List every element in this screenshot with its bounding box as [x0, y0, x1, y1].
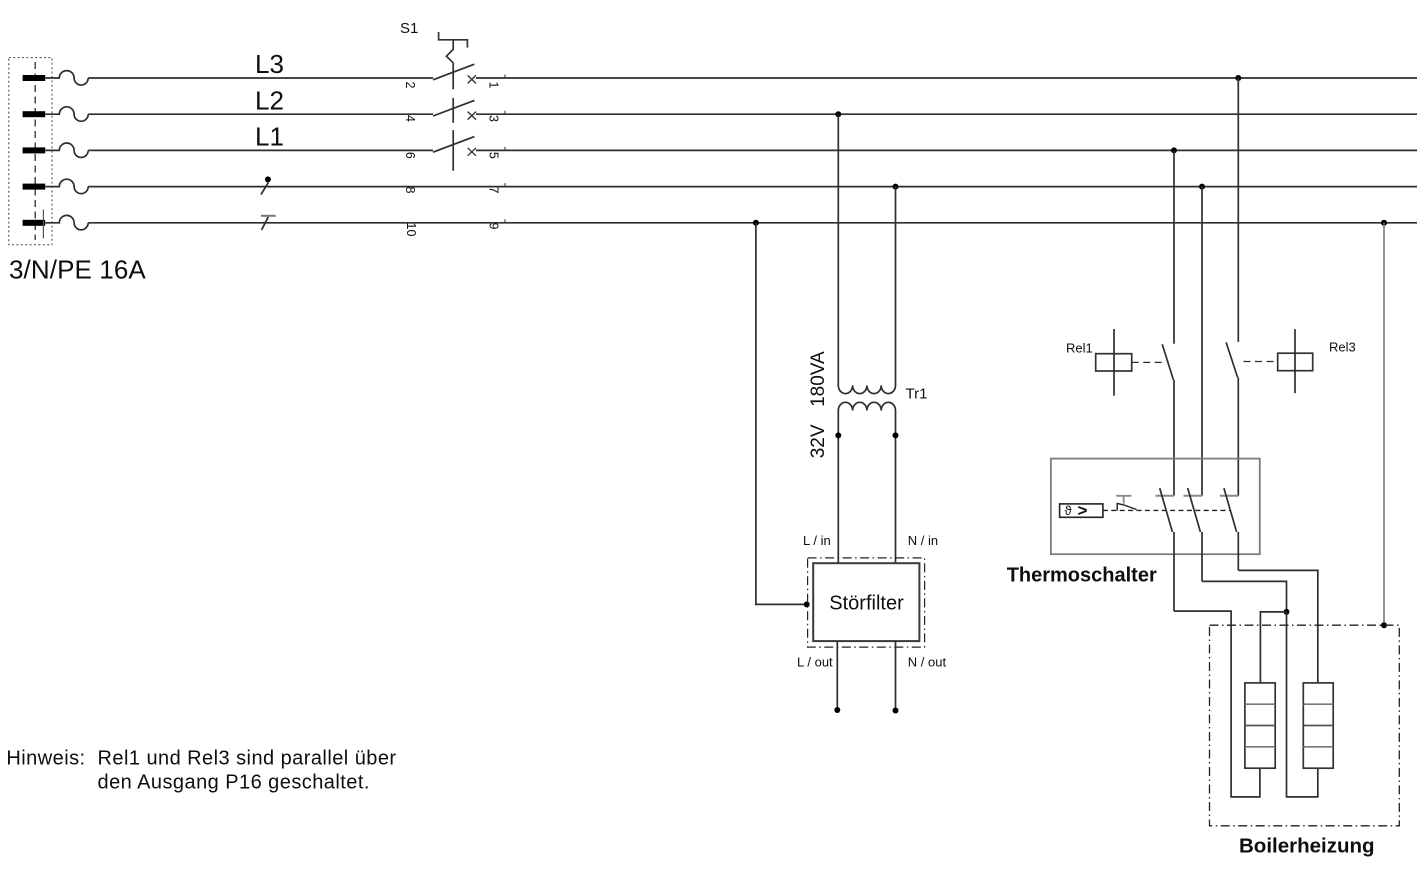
- svg-text:ϑ: ϑ: [1065, 503, 1073, 518]
- terminal tick pin1: [504, 75, 506, 79]
- svg-text:7: 7: [487, 187, 501, 194]
- switch S1 actuator bracket: [439, 32, 468, 48]
- switch S1 pole 2 lever: [433, 100, 474, 116]
- terminal tick pin7: [504, 183, 506, 187]
- thermo contact 3 fixed bar: [1220, 495, 1239, 497]
- svg-text:L3: L3: [255, 49, 284, 79]
- transformer secondary left dot: [835, 432, 841, 438]
- thermo contact 2 lower wire: [1201, 532, 1203, 582]
- cable squiggle L2: [45, 107, 88, 121]
- Rel3 coil axis line: [1294, 329, 1296, 393]
- Thermoschalter box: [1051, 459, 1260, 555]
- svg-text:4: 4: [403, 115, 417, 122]
- wire thermo3 to heater2 top: [1238, 570, 1318, 683]
- thermo contact 3 lower wire: [1237, 532, 1239, 571]
- svg-text:10: 10: [404, 223, 418, 237]
- transformer Tr1 secondary right lead: [895, 411, 897, 564]
- svg-text:Boilerheizung: Boilerheizung: [1239, 835, 1375, 858]
- svg-text:5: 5: [487, 152, 501, 159]
- junction dot L1 to Rel1 contact: [1171, 147, 1177, 153]
- terminal tick pin5: [504, 147, 506, 151]
- junction dot N to transformer: [893, 184, 899, 190]
- svg-text:8: 8: [403, 187, 417, 194]
- svg-text:L2: L2: [255, 85, 284, 115]
- svg-text:Hinweis:: Hinweis:: [6, 748, 85, 770]
- Rel1 dashed link: [1132, 361, 1166, 363]
- junction dot heater feed: [1284, 609, 1290, 615]
- transformer Tr1 secondary left lead: [837, 411, 839, 564]
- svg-text:1: 1: [487, 82, 501, 89]
- Störfilter earth wire from PE: [756, 223, 807, 605]
- svg-text:L / in: L / in: [803, 533, 831, 548]
- switch S1 pole 1 X mark: [468, 75, 476, 83]
- Störfilter N/out dot: [893, 708, 899, 714]
- thermo contact 1 fixed bar: [1156, 495, 1175, 497]
- svg-text:N / out: N / out: [908, 654, 947, 669]
- wire thermo2 to junction: [1202, 581, 1287, 612]
- terminal bar L2: [23, 111, 46, 117]
- transformer Tr1 primary winding: [838, 385, 895, 393]
- junction dot L2 to transformer: [835, 111, 841, 117]
- svg-text:180VA: 180VA: [808, 351, 829, 407]
- Störfilter N/out lead: [895, 641, 897, 710]
- wire junction to heater2 bottom: [1287, 612, 1318, 797]
- PE enclosure dot: [1381, 622, 1387, 628]
- trip latch T-bar: [1116, 496, 1131, 504]
- svg-text:Thermoschalter: Thermoschalter: [1007, 565, 1157, 587]
- N line contact symbol: [261, 176, 271, 194]
- transformer secondary right dot: [893, 432, 899, 438]
- Rel3 contact drop wire lower: [1237, 378, 1239, 496]
- junction dot L3 to Rel3 contact: [1235, 75, 1241, 81]
- wire L2 left segment: [88, 113, 433, 115]
- terminal block 3/N/PE 16A : dotted enclosure: [9, 58, 52, 245]
- terminal bar L1: [23, 147, 46, 153]
- Störfilter outer dash-dot box: [808, 558, 925, 647]
- PE line contact symbol: [261, 216, 276, 230]
- svg-text:>: >: [1078, 501, 1088, 520]
- svg-text:2: 2: [403, 82, 417, 89]
- svg-text:S1: S1: [400, 20, 418, 37]
- svg-text:9: 9: [487, 223, 501, 230]
- thermo contact 1 lever: [1160, 488, 1173, 532]
- wire L1 left segment: [88, 149, 433, 151]
- Rel3 dashed link: [1244, 361, 1278, 363]
- Rel1 contact drop wire upper: [1173, 150, 1175, 343]
- Störfilter L/out lead: [836, 641, 838, 709]
- terminal bar N: [23, 184, 46, 190]
- terminal tick pin9: [504, 219, 506, 223]
- Rel3 contact lever: [1226, 342, 1238, 377]
- terminal tick pin3: [504, 111, 506, 115]
- svg-text:den Ausgang P16 geschaltet.: den Ausgang P16 geschaltet.: [98, 771, 370, 793]
- transformer Tr1 secondary winding: [838, 402, 895, 410]
- wire junction to heater1 top: [1260, 612, 1286, 683]
- svg-text:32V: 32V: [808, 424, 829, 458]
- switch S1 pole 1 lever: [433, 64, 474, 80]
- svg-text:Rel1 und Rel3 sind parallel üb: Rel1 und Rel3 sind parallel über: [98, 748, 397, 770]
- switch S1 mechanical link: [452, 63, 454, 171]
- wire L3 right segment: [476, 77, 1417, 79]
- Rel3 contact drop wire upper: [1237, 78, 1239, 342]
- svg-text:L / out: L / out: [797, 654, 833, 669]
- svg-text:L1: L1: [255, 122, 284, 152]
- svg-text:Rel3: Rel3: [1329, 340, 1356, 355]
- svg-text:6: 6: [403, 152, 417, 159]
- thermo contact 2 lever: [1188, 488, 1201, 532]
- Rel1 contact lever: [1162, 344, 1173, 380]
- svg-text:N / in: N / in: [908, 533, 938, 548]
- svg-text:Tr1: Tr1: [906, 386, 928, 403]
- wire thermo1 to heater1 bottom: [1174, 611, 1260, 797]
- terminal block dashed center line: [34, 62, 36, 240]
- Störfilter L/out dot: [834, 707, 840, 713]
- wire PE: [88, 222, 1417, 224]
- Störfilter inner box: [813, 563, 919, 641]
- heater element 2: [1303, 683, 1333, 768]
- svg-text:Störfilter: Störfilter: [829, 593, 904, 615]
- cable squiggle L1: [45, 143, 88, 157]
- thermo contact 3 lever: [1224, 488, 1237, 532]
- cable squiggle PE: [45, 215, 88, 229]
- switch S1 pole 3 X mark: [468, 148, 476, 156]
- Rel1 contact drop wire lower: [1173, 380, 1175, 496]
- switch S1 pole 3 lever: [433, 137, 474, 153]
- Boilerheizung dash-dot enclosure: [1210, 625, 1400, 826]
- thermo contact 2 fixed bar: [1184, 495, 1203, 497]
- switch S1 actuator zigzag: [446, 40, 453, 63]
- thermo contact 1 lower wire: [1173, 532, 1175, 611]
- junction dot PE to boiler: [1381, 220, 1387, 226]
- trip latch lever: [1117, 503, 1136, 510]
- terminal bar L3: [23, 75, 46, 81]
- PE drop wire to boiler enclosure: [1383, 223, 1385, 625]
- thermal trip device box: [1060, 504, 1103, 517]
- wire L3 left segment: [88, 77, 433, 79]
- svg-text:3: 3: [487, 115, 501, 122]
- Störfilter earth dot: [804, 601, 810, 607]
- svg-text:Rel1: Rel1: [1066, 340, 1093, 355]
- junction dot PE to filter: [753, 220, 759, 226]
- PE terminal tick: [42, 210, 44, 239]
- svg-text:3/N/PE 16A: 3/N/PE 16A: [9, 254, 146, 284]
- terminal bar PE: [23, 220, 46, 226]
- cable squiggle L3: [45, 71, 88, 85]
- N middle drop wire to thermoswitch: [1201, 187, 1203, 496]
- transformer Tr1 primary drop from N: [895, 187, 897, 386]
- junction dot N to thermo: [1199, 184, 1205, 190]
- switch S1 pole 2 X mark: [468, 112, 476, 120]
- wire L2 right segment: [476, 113, 1417, 115]
- cable squiggle N: [45, 179, 88, 193]
- wire N: [88, 186, 1417, 188]
- relay coil Rel1: [1096, 354, 1132, 371]
- thermal trip dashed line: [1103, 509, 1230, 511]
- relay coil Rel3: [1278, 353, 1313, 371]
- heater element 1: [1245, 683, 1275, 768]
- transformer Tr1 primary drop from L2: [837, 114, 839, 385]
- wire L1 right segment: [476, 149, 1417, 151]
- Rel1 coil axis line: [1113, 329, 1115, 396]
